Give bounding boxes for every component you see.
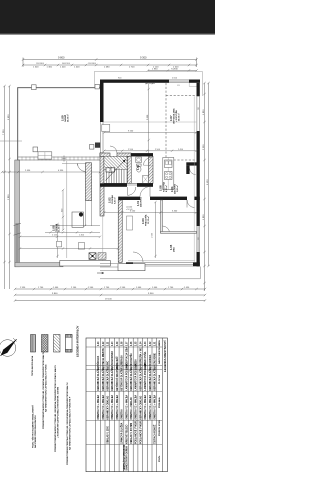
svg-text:21,35: 21,35 bbox=[122, 362, 124, 368]
svg-text:12,15 m²: 12,15 m² bbox=[147, 216, 150, 224]
svg-text:2 125: 2 125 bbox=[52, 234, 58, 236]
svg-text:OMIETKA VC + MAĽBA: OMIETKA VC + MAĽBA bbox=[111, 394, 114, 419]
svg-text:POVRCH STIEN: POVRCH STIEN bbox=[159, 419, 161, 436]
svg-text:9 300: 9 300 bbox=[140, 56, 147, 60]
svg-text:WC: WC bbox=[108, 360, 110, 364]
top wall window dim ticks bbox=[145, 82, 155, 84]
svg-text:2 500: 2 500 bbox=[203, 144, 205, 150]
small dims around hall bbox=[62, 189, 64, 231]
terrace left wall lower bbox=[15, 160, 20, 267]
svg-text:KERAMICKÁ DLAŽBA: KERAMICKÁ DLAŽBA bbox=[102, 367, 105, 391]
svg-text:1.10: 1.10 bbox=[112, 341, 114, 346]
svg-text:KERAMICKÁ DLAŽBA: KERAMICKÁ DLAŽBA bbox=[111, 367, 114, 391]
svg-text:3 400: 3 400 bbox=[172, 211, 178, 213]
svg-text:1.05: 1.05 bbox=[136, 341, 138, 346]
svg-text:2 550: 2 550 bbox=[128, 149, 134, 151]
svg-text:2 100: 2 100 bbox=[71, 287, 77, 289]
svg-text:150/1800: 150/1800 bbox=[36, 63, 44, 65]
wc wall horizontal bbox=[161, 232, 197, 234]
stair landing dark block bbox=[106, 168, 115, 172]
svg-text:1.03: 1.03 bbox=[141, 218, 145, 224]
interior dim chain y248 bbox=[19, 247, 119, 249]
kitchen counter vertical bbox=[163, 158, 174, 190]
svg-text:ČISTIACA ROHOŽ: ČISTIACA ROHOŽ bbox=[154, 424, 157, 444]
svg-text:OMIETKA VC + MAĽBA: OMIETKA VC + MAĽBA bbox=[135, 394, 138, 419]
svg-text:1 950: 1 950 bbox=[152, 69, 158, 71]
svg-text:KERAMICKÁ DLAŽBA: KERAMICKÁ DLAŽBA bbox=[130, 367, 133, 391]
material text B bbox=[42, 351, 48, 429]
svg-text:9 150: 9 150 bbox=[207, 179, 209, 185]
material swatch A (dense insulation) bbox=[31, 335, 36, 353]
living room horizontal dim bbox=[103, 131, 197, 133]
svg-text:NA TENKOVRSTVOVÚ LEPIACU MALTU: NA TENKOVRSTVOVÚ LEPIACU MALTU YTONG FIX… bbox=[68, 396, 71, 450]
svg-text:1.07: 1.07 bbox=[169, 115, 173, 121]
svg-text:1.06: 1.06 bbox=[159, 185, 163, 191]
right dim labels rotated bbox=[203, 109, 209, 220]
hatched square next to washer bbox=[98, 253, 106, 259]
svg-text:1 500: 1 500 bbox=[88, 287, 94, 289]
svg-text:1 700: 1 700 bbox=[104, 287, 110, 289]
svg-text:1.02: 1.02 bbox=[108, 197, 112, 203]
eaves line bottom right bbox=[100, 267, 200, 279]
svg-text:KERAMICKÁ DLAŽBA: KERAMICKÁ DLAŽBA bbox=[139, 367, 142, 391]
svg-text:1 700: 1 700 bbox=[168, 287, 174, 289]
svg-text:2 500: 2 500 bbox=[155, 149, 161, 151]
svg-text:1.09: 1.09 bbox=[117, 341, 119, 346]
material text C bbox=[54, 365, 60, 452]
garage left wall upper bbox=[17, 87, 19, 160]
rooms table title strip bbox=[161, 338, 163, 472]
room label 1.03 bbox=[141, 214, 150, 226]
terrace step rect 2 bbox=[118, 264, 145, 271]
interior dim chain y225 bbox=[50, 224, 100, 226]
dashed ceiling opening horizontal bbox=[166, 95, 197, 97]
svg-text:1.09: 1.09 bbox=[61, 115, 65, 121]
mid dim chain under garage door bbox=[1, 171, 101, 173]
svg-text:ZÁDVERIE: ZÁDVERIE bbox=[140, 196, 143, 207]
svg-text:OMIETKA VC + MAĽBA: OMIETKA VC + MAĽBA bbox=[144, 394, 147, 419]
svg-text:2 700: 2 700 bbox=[129, 67, 135, 69]
wall mid horizontal y197 bbox=[118, 197, 140, 200]
svg-text:5 050: 5 050 bbox=[147, 114, 149, 120]
svg-text:1.11: 1.11 bbox=[108, 341, 110, 346]
dashed void bottom edge bbox=[166, 159, 196, 161]
bottom dim labels 1 bbox=[20, 287, 190, 289]
svg-text:OBÝVACIA IZBA: OBÝVACIA IZBA bbox=[125, 347, 128, 365]
top dimension chain line 2 bbox=[22, 64, 198, 66]
svg-text:1 500: 1 500 bbox=[33, 67, 39, 69]
wall below stairs-bath bbox=[100, 183, 127, 187]
material swatch C (diag hatch) bbox=[54, 335, 61, 353]
house right wall window 2 bbox=[197, 226, 200, 252]
bottom dimension chain 1 bbox=[14, 288, 206, 290]
house bottom wall corner segments bbox=[126, 262, 133, 266]
small fixture rect 2 bbox=[57, 241, 62, 247]
carport mid line bbox=[66, 161, 68, 258]
interior dim chain y232 bbox=[45, 231, 100, 233]
hall label 1.02 bbox=[108, 195, 117, 204]
svg-text:PODLAHA: PODLAHA bbox=[158, 397, 161, 408]
pantry wall vertical bbox=[186, 166, 189, 174]
vertical dim in 1.03 bbox=[154, 201, 156, 258]
svg-text:PODLAHOVÉ VYKUR.: PODLAHOVÉ VYKUR. bbox=[139, 420, 142, 444]
inner finish corner top right bbox=[189, 83, 196, 87]
material text D bbox=[66, 382, 72, 465]
zadverie label 1.01 bbox=[170, 183, 179, 194]
left vertical dimension chain bbox=[3, 85, 10, 289]
svg-text:LEGENDA MIESTNOSTÍ: LEGENDA MIESTNOSTÍ bbox=[162, 340, 167, 372]
kitchen sink bbox=[165, 160, 173, 168]
svg-text:900/2100: 900/2100 bbox=[62, 63, 70, 65]
compass needle bbox=[1, 339, 17, 355]
svg-text:KERAMICKÝ OBKLAD: KERAMICKÝ OBKLAD bbox=[107, 395, 110, 419]
column marker top-right bbox=[95, 84, 99, 89]
svg-text:3 550: 3 550 bbox=[130, 211, 136, 213]
svg-text:1.05: 1.05 bbox=[169, 244, 173, 250]
eaves outline above house bbox=[95, 71, 203, 96]
svg-text:1 850: 1 850 bbox=[203, 109, 205, 115]
living room interior dim line bbox=[148, 84, 150, 160]
svg-text:NA TENKOVRSTVOVÚ LEPIACU MALTU: NA TENKOVRSTVOVÚ LEPIACU MALTU YTONG bbox=[44, 364, 47, 412]
door swing bottom middle bbox=[133, 252, 143, 262]
svg-text:9 300: 9 300 bbox=[148, 293, 154, 295]
room dim chain y236.8 bbox=[19, 236, 101, 238]
material swatch D (open with end caps) bbox=[66, 335, 73, 353]
svg-text:BETÓNOVÁ DLAŽBA: BETÓNOVÁ DLAŽBA bbox=[121, 368, 124, 391]
svg-text:1.08: 1.08 bbox=[122, 341, 124, 346]
bathroom floor bbox=[131, 156, 148, 183]
svg-text:19 100: 19 100 bbox=[105, 299, 112, 301]
svg-text:POZN.: POZN. bbox=[159, 455, 161, 462]
compass north tick bbox=[13, 338, 17, 342]
svg-text:KUCHYŇA: KUCHYŇA bbox=[130, 353, 133, 365]
svg-text:KERAMICKÁ DLAŽBA: KERAMICKÁ DLAŽBA bbox=[107, 367, 110, 391]
svg-text:9,45 m²: 9,45 m² bbox=[114, 197, 117, 204]
svg-text:1 450: 1 450 bbox=[184, 287, 190, 289]
shower bbox=[143, 176, 149, 184]
bath sink bbox=[136, 157, 142, 163]
house top wall right segment bbox=[189, 80, 200, 83]
svg-text:KERAMICKÁ DLAŽBA: KERAMICKÁ DLAŽBA bbox=[154, 367, 157, 391]
hatched wall entry left bbox=[86, 163, 92, 201]
svg-text:ŠPAJZA: ŠPAJZA bbox=[97, 355, 100, 364]
svg-text:KERAMICKÁ DLAŽBA: KERAMICKÁ DLAŽBA bbox=[149, 367, 152, 391]
svg-text:1 300: 1 300 bbox=[47, 67, 53, 69]
svg-text:1 400: 1 400 bbox=[79, 234, 85, 236]
svg-text:1.04: 1.04 bbox=[139, 341, 142, 346]
garage door ladder ticks bbox=[22, 157, 98, 161]
svg-text:8,35 m²: 8,35 m² bbox=[165, 185, 168, 192]
svg-text:2 450: 2 450 bbox=[178, 149, 184, 151]
bottom dimension line 2 bbox=[14, 294, 206, 296]
house right wall upper bbox=[197, 83, 200, 97]
svg-text:1 500: 1 500 bbox=[120, 287, 126, 289]
house right wall lower bbox=[197, 252, 200, 266]
right vertical dimension chain bbox=[203, 82, 209, 291]
svg-text:1 800: 1 800 bbox=[203, 214, 205, 220]
svg-text:9 800: 9 800 bbox=[52, 293, 58, 295]
garage bottom inner wall (door wall) bbox=[18, 156, 101, 158]
terrace lines bbox=[100, 264, 122, 271]
rooms table row lines bbox=[96, 338, 152, 472]
property line mark left bbox=[0, 140, 22, 142]
gallery edge line bbox=[104, 121, 197, 123]
svg-text:1 400: 1 400 bbox=[60, 67, 66, 69]
svg-text:9 250: 9 250 bbox=[128, 131, 134, 133]
terrace step long rect bbox=[60, 261, 111, 267]
svg-text:1.12: 1.12 bbox=[103, 341, 105, 346]
chimney block bbox=[95, 143, 100, 148]
column marker mid-right bbox=[90, 145, 94, 150]
living room dim chain y151 bbox=[103, 150, 198, 152]
pantry wall horizontal bbox=[186, 162, 196, 165]
svg-text:1.01: 1.01 bbox=[155, 341, 157, 346]
room label 1.05 bbox=[169, 244, 176, 252]
garage cabinet box bbox=[38, 152, 52, 159]
svg-text:OMIETKA VC + MAĽBA: OMIETKA VC + MAĽBA bbox=[154, 394, 157, 419]
svg-text:OMIETKA VC + MAĽBA: OMIETKA VC + MAĽBA bbox=[125, 394, 128, 419]
thin wall continuation below entry wall bbox=[86, 201, 92, 226]
material swatch B (cross hatch) bbox=[42, 335, 49, 353]
svg-text:KÚPEĽŇA + WC: KÚPEĽŇA + WC bbox=[139, 347, 142, 364]
wall above stairs bbox=[100, 153, 110, 156]
svg-text:LAMINÁTOVÁ PODLAHA: LAMINÁTOVÁ PODLAHA bbox=[125, 364, 128, 391]
svg-text:38,60 m²: 38,60 m² bbox=[178, 113, 181, 121]
svg-text:KERAMICKÝ OBKLAD: KERAMICKÝ OBKLAD bbox=[139, 395, 142, 419]
svg-text:4 350: 4 350 bbox=[58, 170, 64, 172]
house bottom wall window band bbox=[133, 263, 193, 266]
svg-text:TERASA: TERASA bbox=[121, 355, 124, 365]
svg-text:ZÁMKOVÁ DLAŽBA: ZÁMKOVÁ DLAŽBA bbox=[121, 422, 124, 444]
inner finish line right room bbox=[193, 96, 195, 262]
svg-text:5,80 m²: 5,80 m² bbox=[176, 185, 179, 192]
entry threshold line bbox=[62, 163, 86, 165]
svg-text:9 800: 9 800 bbox=[58, 56, 65, 60]
hall door arc 1 bbox=[128, 187, 136, 195]
svg-text:1 625: 1 625 bbox=[152, 232, 154, 238]
svg-text:1 600: 1 600 bbox=[152, 287, 158, 289]
garage door centre tick bbox=[63, 156, 65, 162]
svg-text:IZBA: IZBA bbox=[173, 247, 176, 252]
dim ticks on left wall bbox=[14, 223, 22, 225]
entry door arc bbox=[78, 164, 86, 172]
living room label 1.07 bbox=[169, 108, 181, 124]
svg-text:1.13: 1.13 bbox=[98, 341, 100, 346]
svg-text:LAMINÁTOVÁ PODLAHA: LAMINÁTOVÁ PODLAHA bbox=[144, 364, 147, 391]
notes text lines bbox=[32, 405, 38, 448]
house right wall middle bbox=[197, 131, 200, 226]
svg-text:OMIETKA VC + MAĽBA: OMIETKA VC + MAĽBA bbox=[102, 394, 105, 419]
svg-text:VENTILÁCIA STROPOM: VENTILÁCIA STROPOM bbox=[123, 445, 126, 471]
svg-text:OMIETKA + OBKLAD: OMIETKA + OBKLAD bbox=[130, 397, 133, 420]
svg-text:KRBOVÉ TELESO: KRBOVÉ TELESO bbox=[125, 424, 128, 444]
svg-text:1.07: 1.07 bbox=[126, 341, 128, 346]
garage room label 1.09 bbox=[61, 114, 70, 122]
bathroom right hatched wall bbox=[149, 156, 154, 183]
stairs upper flight hatched bbox=[104, 156, 127, 169]
window sill mark left wall bbox=[102, 125, 110, 132]
svg-text:1.01: 1.01 bbox=[170, 186, 174, 192]
kitchen label 1.06 bbox=[159, 181, 168, 192]
svg-text:150/1800: 150/1800 bbox=[88, 63, 96, 65]
svg-text:PLOCHA: PLOCHA bbox=[158, 375, 161, 384]
door arc living-entry bbox=[110, 146, 117, 153]
vertical thin wall x161 bbox=[161, 200, 163, 233]
pantry room door arc bbox=[187, 200, 195, 208]
svg-text:TEPELNÁ IZOLÁCIA: TEPELNÁ IZOLÁCIA bbox=[31, 355, 34, 376]
svg-text:SCHODISKO: SCHODISKO bbox=[112, 351, 114, 365]
svg-text:1.04: 1.04 bbox=[136, 164, 140, 170]
vertical dim x57.5 bbox=[56, 223, 58, 258]
svg-text:ZÁDVERIE: ZÁDVERIE bbox=[154, 353, 157, 365]
svg-text:2 450: 2 450 bbox=[25, 170, 31, 172]
svg-text:1 950: 1 950 bbox=[20, 287, 26, 289]
svg-text:OBKLAD V. 600 MM: OBKLAD V. 600 MM bbox=[130, 423, 133, 444]
svg-text:1 600: 1 600 bbox=[136, 287, 142, 289]
house top wall window bbox=[169, 80, 189, 83]
svg-text:1.03: 1.03 bbox=[145, 341, 147, 346]
label 1.01 entry bbox=[136, 196, 143, 207]
svg-text:LAMINÁTOVÁ PODLAHA: LAMINÁTOVÁ PODLAHA bbox=[135, 364, 138, 391]
wall between stairs and bath (hatched) bbox=[127, 156, 131, 183]
svg-text:KERAMICKÁ DLAŽBA: KERAMICKÁ DLAŽBA bbox=[97, 367, 100, 391]
house left wall door opening bbox=[100, 122, 103, 153]
svg-text:1 400: 1 400 bbox=[53, 287, 59, 289]
svg-text:74,940: 74,940 bbox=[171, 69, 178, 71]
svg-text:6 950: 6 950 bbox=[8, 114, 10, 120]
column marker mid-left bbox=[33, 147, 38, 152]
svg-text:OBKLAD V. 1500: OBKLAD V. 1500 bbox=[107, 425, 110, 444]
top right extra dim line bbox=[147, 69, 198, 71]
bath door arc bbox=[144, 157, 152, 165]
svg-text:TECH. MIESTN.: TECH. MIESTN. bbox=[103, 348, 105, 365]
small fixture rect bbox=[78, 243, 84, 249]
top dimension chain line 1 bbox=[22, 58, 198, 68]
house left wall upper bbox=[100, 80, 104, 123]
stairs walking line bbox=[106, 160, 126, 181]
house top wall left segment bbox=[100, 80, 169, 83]
sheet background bbox=[0, 0, 215, 480]
stairs block bbox=[104, 156, 127, 183]
boiler unit with circle bbox=[72, 212, 83, 227]
svg-text:1.02: 1.02 bbox=[150, 341, 152, 346]
svg-text:OMIETKA VC + MAĽBA: OMIETKA VC + MAĽBA bbox=[116, 394, 119, 419]
svg-text:1 700: 1 700 bbox=[38, 287, 44, 289]
washer box with X bbox=[89, 253, 96, 259]
garage bottom outer wall bbox=[15, 263, 63, 267]
terrace side line bbox=[102, 216, 104, 261]
compass rose bbox=[0, 340, 16, 357]
house right wall window bbox=[197, 96, 200, 131]
small arrow exit bbox=[97, 272, 104, 274]
svg-text:21,35 m²: 21,35 m² bbox=[58, 224, 61, 232]
garage top wall bbox=[18, 87, 101, 89]
svg-text:OMIETKA VC + MAĽBA: OMIETKA VC + MAĽBA bbox=[149, 394, 152, 419]
toilet bbox=[137, 164, 142, 166]
door gap arc in wall y197 bbox=[140, 187, 150, 197]
rooms table header strip bbox=[156, 338, 158, 472]
svg-text:NA STAVBE PRED REALIZÁCIOU: NA STAVBE PRED REALIZÁCIOU bbox=[34, 415, 37, 448]
svg-text:OMIETKA VC + MAĽBA: OMIETKA VC + MAĽBA bbox=[97, 394, 100, 419]
hall-stairs door leaf bbox=[127, 184, 137, 186]
bottom dimension line 3 bbox=[14, 299, 206, 301]
svg-text:OMIETKA: OMIETKA bbox=[121, 409, 124, 420]
svg-text:2 800: 2 800 bbox=[8, 194, 10, 200]
svg-text:PODLAHOVÉ VYKUR.: PODLAHOVÉ VYKUR. bbox=[135, 420, 138, 444]
svg-text:1.06: 1.06 bbox=[131, 341, 133, 346]
svg-text:NÁZOV MIESTNOSTI: NÁZOV MIESTNOSTI bbox=[158, 342, 161, 364]
rooms table column lines bbox=[86, 347, 162, 445]
svg-text:2 000: 2 000 bbox=[172, 78, 178, 80]
svg-text:7 250: 7 250 bbox=[3, 129, 5, 135]
desk in 1.03 bbox=[127, 216, 133, 230]
top black bar bbox=[0, 0, 215, 34]
svg-text:24,60 m²: 24,60 m² bbox=[67, 114, 70, 122]
svg-text:+ KONTAKTNÝ ZATEPĽOVACÍ SYSTÉM: + KONTAKTNÝ ZATEPĽOVACÍ SYSTÉM HR. 150 M… bbox=[56, 387, 59, 438]
svg-text:1 400: 1 400 bbox=[74, 67, 80, 69]
svg-text:1.01: 1.01 bbox=[136, 200, 140, 206]
svg-text:BETÓNOVÁ MAZANINA: BETÓNOVÁ MAZANINA bbox=[116, 365, 119, 391]
svg-text:1.08: 1.08 bbox=[52, 225, 56, 231]
rooms table cell texts bbox=[97, 341, 156, 471]
kitchen stove bbox=[165, 172, 173, 180]
house left wall lower hatched bbox=[100, 153, 104, 216]
rooms table frame bbox=[86, 338, 167, 472]
left dim labels rotated bbox=[3, 114, 10, 200]
room label 1.08 below garage bbox=[52, 223, 61, 232]
svg-text:1.10: 1.10 bbox=[109, 167, 113, 173]
svg-text:PRACOVŇA: PRACOVŇA bbox=[144, 351, 147, 364]
svg-text:2 480: 2 480 bbox=[104, 67, 110, 69]
column marker top-left bbox=[32, 85, 37, 90]
interior dim chain y213 bbox=[103, 211, 197, 213]
wc room door arc bbox=[163, 226, 170, 233]
svg-text:CHODBA: CHODBA bbox=[149, 354, 152, 364]
vertical wall x118 hatched bbox=[118, 200, 122, 262]
pantry door arc bbox=[190, 169, 196, 175]
dashed ceiling opening vertical bbox=[165, 83, 167, 160]
